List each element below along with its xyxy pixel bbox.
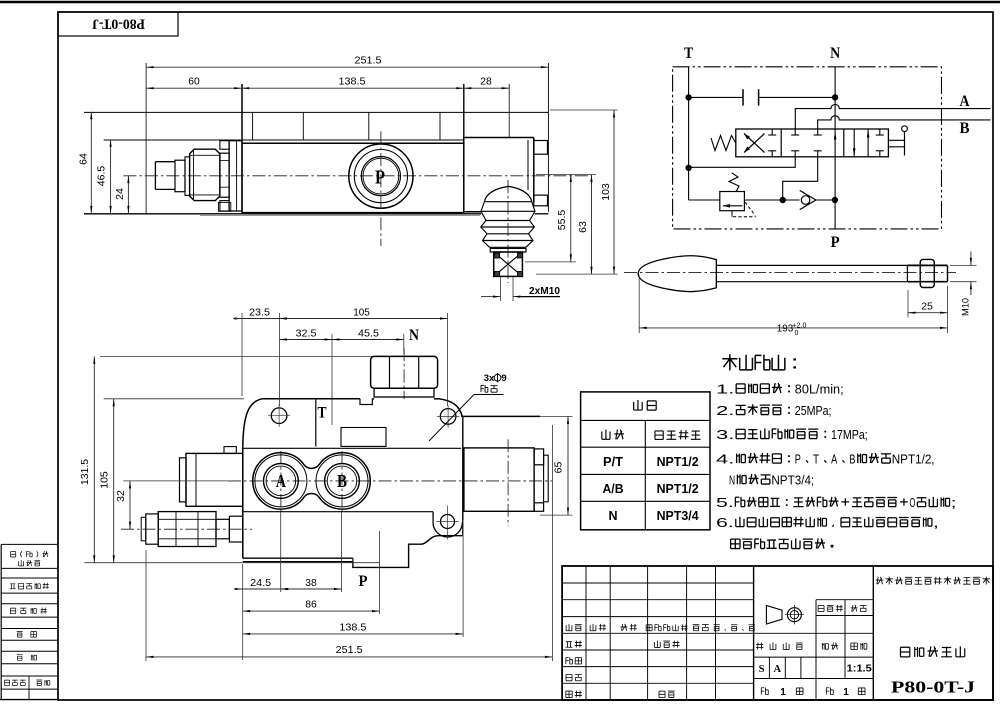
technical requirements item 6 line 2 <box>731 538 834 548</box>
svg-text:0: 0 <box>795 330 799 337</box>
leader and label 3xphi9 through hole <box>429 373 507 441</box>
front view dimension 251.5 <box>145 550 147 661</box>
handle threaded end <box>907 265 947 281</box>
title block middle labels <box>756 605 872 698</box>
svg-text:A: A <box>276 471 286 491</box>
node: junction before check valve <box>780 197 785 202</box>
front view: upper-right mounting hole 3xphi9 <box>437 405 459 428</box>
product name <box>900 646 964 657</box>
svg-text:NPT3/4;: NPT3/4; <box>771 473 814 488</box>
svg-text:23.5: 23.5 <box>249 307 270 319</box>
svg-text:3x: 3x <box>484 373 495 384</box>
svg-text:6.: 6. <box>716 516 734 530</box>
top view: back mounting plate <box>84 112 548 215</box>
manual lever actuator <box>888 126 907 156</box>
relief valve RV1 <box>720 173 756 217</box>
node: N junction at orifice line <box>832 95 837 100</box>
front view: N hex nut <box>371 356 438 397</box>
svg-text:63: 63 <box>577 221 589 233</box>
front view dimension 32 vertical <box>123 480 232 482</box>
svg-text:A: A <box>774 664 782 675</box>
svg-text:T: T <box>813 452 819 467</box>
front view dimension 23.5 <box>241 313 243 396</box>
svg-text:251.5: 251.5 <box>336 644 363 656</box>
front view: A-B horizontal centerline <box>228 480 552 482</box>
svg-text:P: P <box>795 452 801 467</box>
svg-text:138.5: 138.5 <box>339 76 366 88</box>
front view: top section dividers and T port recess <box>316 399 386 447</box>
wire: valve port to check valve junction <box>783 157 818 200</box>
svg-text:+2.0: +2.0 <box>793 323 807 330</box>
svg-text:131.5: 131.5 <box>79 459 91 485</box>
top view: main centerline <box>123 175 592 177</box>
node: junction on P line <box>832 197 837 202</box>
svg-text:38: 38 <box>305 577 317 589</box>
svg-text:T: T <box>318 405 328 422</box>
svg-text:17MPa;: 17MPa; <box>831 427 868 442</box>
svg-text:P80-0T-J: P80-0T-J <box>92 16 145 32</box>
svg-text:1: 1 <box>780 687 786 698</box>
top view: right end block with bracket tabs <box>464 63 549 212</box>
title block revision header row <box>566 624 755 631</box>
front view: relief valve adjuster (lower) <box>141 512 243 547</box>
front view dimension 65 <box>540 415 573 417</box>
top view: joint vertical centerline <box>507 180 509 283</box>
node: T upper junction <box>686 95 691 100</box>
svg-text:A: A <box>960 93 970 110</box>
check valve CV1 <box>783 190 835 209</box>
top view: P port vertical centerline <box>380 131 382 246</box>
svg-text:B: B <box>337 471 347 491</box>
wire: A line with crossover hop <box>795 104 990 129</box>
handle shaft <box>716 264 907 266</box>
svg-text:25: 25 <box>921 301 933 313</box>
svg-text:M10: M10 <box>961 298 972 316</box>
company name <box>876 577 990 585</box>
front view: right side upper edge <box>461 415 540 417</box>
svg-text:45.5: 45.5 <box>358 328 379 340</box>
title block middle grid <box>754 600 874 700</box>
svg-text:1.: 1. <box>716 382 734 397</box>
front view dimension 86 <box>379 531 381 614</box>
top view: joint cross block 2xM10 <box>494 252 523 276</box>
svg-text:105: 105 <box>353 307 370 319</box>
svg-text:N: N <box>608 509 617 523</box>
top-left part-number box P80-0T-J (rotated 180) <box>58 12 178 36</box>
title block frame <box>562 566 993 700</box>
handle dimension 193 <box>638 275 640 333</box>
top view dimension 103 <box>550 109 618 111</box>
svg-text:1: 1 <box>843 687 849 698</box>
svg-text:32.5: 32.5 <box>296 328 317 340</box>
svg-text:24: 24 <box>114 188 126 200</box>
top view dimension 55.5 <box>525 261 576 263</box>
front view: spool end cap block <box>464 439 548 526</box>
front view dimension 38 <box>341 512 343 592</box>
svg-text:1:1.5: 1:1.5 <box>847 663 872 675</box>
handle dimension M10 <box>950 252 977 317</box>
handle dimension 25 <box>907 290 909 318</box>
top view dimension 24 <box>127 176 129 214</box>
front view: A port vertical centerline <box>280 451 282 512</box>
svg-text:S: S <box>759 664 765 675</box>
front view: body outline <box>243 399 463 568</box>
svg-text:P80-0T-J: P80-0T-J <box>891 678 975 697</box>
handle jam nut <box>920 259 934 287</box>
svg-text:NPT1/2,: NPT1/2, <box>892 452 935 467</box>
svg-text:9: 9 <box>501 373 506 384</box>
svg-text:86: 86 <box>305 599 317 611</box>
svg-text:B: B <box>849 452 855 467</box>
handle centerline <box>624 271 956 273</box>
svg-text:55.5: 55.5 <box>556 210 568 231</box>
front view: relief valve centerline <box>121 528 252 530</box>
svg-text:4.: 4. <box>716 452 734 467</box>
wire: B line with crossover hop <box>818 116 991 129</box>
spool return spring <box>711 136 736 151</box>
front view dimension 138.5 <box>462 520 464 637</box>
top view: handle joint rubber boot (bellows) <box>481 186 535 252</box>
svg-text:P: P <box>375 167 385 189</box>
svg-text:P: P <box>831 234 840 251</box>
front view dimension 131.5 <box>100 355 372 357</box>
top view dimension 28 <box>464 87 509 89</box>
svg-text:65: 65 <box>553 462 565 474</box>
svg-text:A/B: A/B <box>603 482 624 496</box>
svg-text:N: N <box>830 45 840 62</box>
technical requirements heading <box>722 354 796 370</box>
svg-text:;: ; <box>951 496 957 510</box>
svg-text:5.: 5. <box>716 496 734 510</box>
left margin register table <box>0 544 58 700</box>
wire: orifice to N <box>759 96 836 98</box>
svg-text:105: 105 <box>98 471 110 489</box>
directional spool valve: body 3-position <box>736 129 889 157</box>
svg-text:60: 60 <box>188 76 200 88</box>
front view: A and B port bosses (peanut contour) <box>253 453 371 509</box>
svg-text:25MPa;: 25MPa; <box>795 403 832 418</box>
svg-text:138.5: 138.5 <box>339 622 366 634</box>
svg-text:O: O <box>910 496 916 510</box>
svg-text:NPT1/2: NPT1/2 <box>657 482 699 496</box>
wire: relief valve to check valve <box>744 199 782 201</box>
top view dimension 251.5 <box>146 66 548 68</box>
wire: T to orifice <box>689 96 743 98</box>
svg-text:103: 103 <box>600 183 612 201</box>
first-angle projection symbol <box>766 605 804 624</box>
front view dimension 105 vertical <box>104 398 244 400</box>
svg-text:B: B <box>960 120 970 137</box>
front view: upper-left mounting hole <box>268 404 290 427</box>
svg-text:64: 64 <box>78 153 90 165</box>
top view dimension 63 <box>536 174 596 176</box>
spool section 1: crossed arrows <box>744 129 776 157</box>
svg-text:N: N <box>729 473 735 488</box>
top view dimension 2xM10 <box>481 277 560 301</box>
front view dimension 45.5 <box>403 334 405 354</box>
wire: N-P line vertical <box>834 67 836 229</box>
node: T lower junction <box>686 165 691 170</box>
svg-text:2.: 2. <box>716 403 734 418</box>
svg-text:P: P <box>359 573 368 590</box>
front view: relief valve upper cartridge <box>180 447 243 507</box>
front view: lower mounting hole <box>436 506 458 540</box>
svg-text:NPT3/4: NPT3/4 <box>657 509 699 523</box>
svg-text:28: 28 <box>480 76 492 88</box>
svg-text:T: T <box>684 45 693 62</box>
port thread table <box>581 392 710 530</box>
front view dimension 105 horizontal <box>447 313 449 406</box>
top view dimension 64 <box>90 112 92 214</box>
title block signature labels <box>566 641 680 698</box>
wire: valve port to T return line <box>689 157 796 168</box>
svg-text:32: 32 <box>115 490 127 502</box>
wire: bottom pressure line T-side <box>689 199 720 201</box>
svg-text:NPT1/2: NPT1/2 <box>657 455 699 469</box>
svg-text:,: , <box>933 516 939 530</box>
svg-text:193: 193 <box>777 323 794 335</box>
svg-text:3.: 3. <box>716 427 734 442</box>
front view: body step lines <box>243 447 461 449</box>
svg-text:2xM10: 2xM10 <box>529 286 560 297</box>
orifice / plug symbol (two plates) <box>742 89 744 105</box>
spool section 2 (neutral): blocked A,B + P-N bypass arrow <box>791 129 836 157</box>
front view: B port vertical centerline <box>341 451 343 512</box>
svg-text:N: N <box>409 327 419 344</box>
top view: spool rod end with jam nuts <box>146 63 242 214</box>
front view dimension 24.5 <box>242 564 244 660</box>
front view dimension 32.5 <box>331 334 333 425</box>
svg-text:80L/min;: 80L/min; <box>795 382 844 397</box>
spool section 3: parallel flow arrows <box>853 129 884 157</box>
svg-text:251.5: 251.5 <box>355 55 382 67</box>
drawing sheet outer top border <box>0 1 1000 3</box>
top view dimension 138.5 <box>242 87 464 89</box>
top view dimension 60 <box>146 87 242 89</box>
wire: T line vertical <box>688 67 690 200</box>
schematic enclosure (valve body boundary, dash-dot) <box>673 67 942 229</box>
handle grip <box>638 256 716 292</box>
svg-text:46.5: 46.5 <box>96 166 108 187</box>
svg-text:P/T: P/T <box>603 455 623 469</box>
front view: N port vertical centerline <box>403 348 405 399</box>
svg-text:24.5: 24.5 <box>250 577 271 589</box>
top view dimension 46.5 <box>110 139 112 213</box>
svg-text:A: A <box>831 452 837 467</box>
top view: valve main body <box>242 84 464 214</box>
